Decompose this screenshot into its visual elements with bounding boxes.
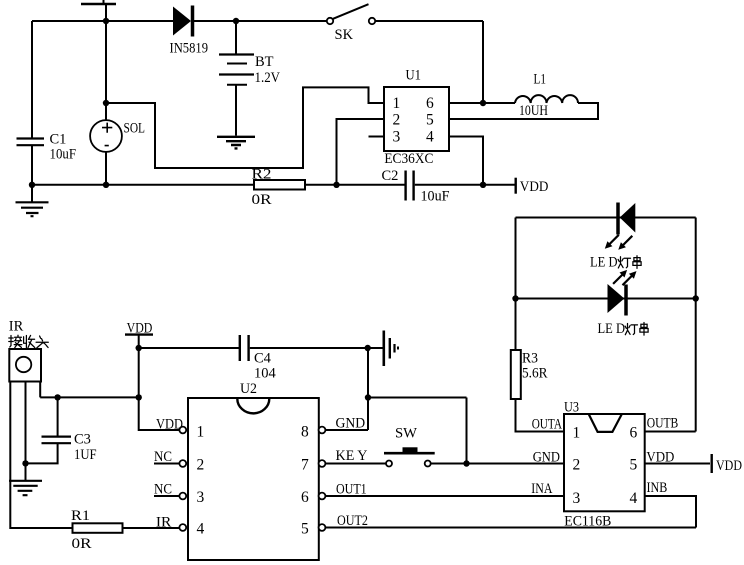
svg-text:1UF: 1UF [74,447,97,463]
svg-text:104: 104 [254,366,277,382]
svg-text:5.6R: 5.6R [522,366,548,382]
svg-text:U2: U2 [240,381,257,397]
svg-text:10uF: 10uF [50,147,77,163]
svg-text:0R: 0R [72,536,92,552]
svg-text:IN5819: IN5819 [170,41,209,57]
svg-text:R3: R3 [522,351,538,367]
svg-text:OUTB: OUTB [647,416,679,432]
svg-text:SOL: SOL [124,121,146,137]
svg-text:6: 6 [630,425,638,442]
svg-text:2: 2 [573,457,581,474]
svg-text:LE D: LE D [590,255,618,271]
svg-text:OUT1: OUT1 [336,482,367,498]
svg-text:2: 2 [197,457,205,474]
svg-text:R2: R2 [252,167,272,183]
svg-text:8: 8 [301,424,309,441]
svg-text:4: 4 [630,490,638,507]
svg-text:LE D: LE D [598,321,626,337]
svg-text:2: 2 [393,111,401,128]
svg-text:INA: INA [531,481,553,497]
svg-text:5: 5 [426,111,434,128]
svg-text:3: 3 [573,490,581,507]
svg-text:5: 5 [301,521,309,538]
svg-text:GND: GND [533,450,560,466]
svg-text:5: 5 [630,457,638,474]
svg-text:NC: NC [154,449,172,465]
svg-text:7: 7 [301,457,309,474]
svg-text:OUTA: OUTA [532,417,563,433]
svg-text:VDD: VDD [520,179,549,195]
svg-text:U1: U1 [406,68,422,84]
svg-text:6: 6 [426,95,434,112]
svg-text:1: 1 [393,95,401,112]
svg-text:OUT2: OUT2 [337,513,368,529]
svg-text:EC116B: EC116B [564,514,611,530]
svg-text:C4: C4 [254,351,272,367]
svg-text:VDD: VDD [716,458,742,474]
svg-text:NC: NC [154,482,172,498]
svg-text:3: 3 [393,128,401,145]
svg-text:C2: C2 [382,168,399,184]
svg-text:SK: SK [335,27,354,43]
svg-text:1.2V: 1.2V [255,70,281,86]
svg-text:10uF: 10uF [421,189,450,205]
svg-text:SW: SW [395,426,417,442]
svg-text:U3: U3 [564,400,579,416]
svg-text:L1: L1 [534,72,547,88]
svg-text:KE Y: KE Y [336,448,369,464]
svg-text:VDD: VDD [156,417,183,433]
svg-text:INB: INB [647,480,668,496]
svg-text:C1: C1 [50,132,67,148]
svg-text:GND: GND [336,416,366,432]
svg-text:IR: IR [156,515,172,531]
svg-text:EC36XC: EC36XC [384,151,433,167]
svg-text:3: 3 [197,489,205,506]
svg-text:IR: IR [9,319,24,335]
svg-text:10UH: 10UH [519,103,548,119]
svg-text:BT: BT [255,54,274,70]
svg-text:6: 6 [301,489,309,506]
svg-text:4: 4 [426,128,434,145]
svg-text:C3: C3 [74,432,91,448]
svg-text:4: 4 [197,521,205,538]
svg-text:0R: 0R [252,192,272,208]
svg-text:VDD: VDD [646,450,674,466]
svg-text:1: 1 [197,424,205,441]
svg-text:R1: R1 [71,508,90,524]
svg-text:1: 1 [573,425,581,442]
